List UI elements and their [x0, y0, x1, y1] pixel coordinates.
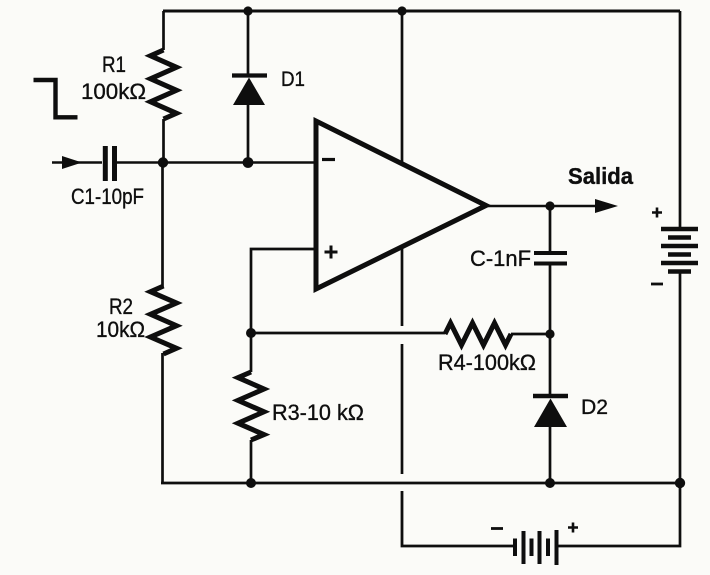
node output junction: [545, 201, 554, 210]
capacitor C plates: [534, 253, 567, 264]
battery B2 (bottom): [515, 530, 557, 565]
node plus-input junction: [246, 328, 256, 338]
wire output (apex to arrow): [486, 205, 597, 208]
resistor R4: [445, 323, 550, 345]
wire bottom horizontal y=483: [161, 482, 680, 485]
node D2 bottom junction: [545, 478, 555, 488]
op-amp minus input sign: [322, 158, 335, 161]
svg-text:R3-10 kΩ: R3-10 kΩ: [272, 400, 364, 425]
wire right vertical upper (top rail to battery B1): [679, 11, 682, 229]
input pulse symbol: [34, 80, 78, 117]
svg-text:Salida: Salida: [568, 163, 633, 189]
wire mid vertical x=402 lower, corner to bottom battery wire: [402, 491, 513, 546]
svg-text:R1: R1: [102, 52, 126, 77]
node R3 bottom junction: [246, 478, 256, 488]
battery B2 minus sign: [491, 527, 503, 530]
wire left vertical lower (R2 to bottom wire): [161, 353, 164, 483]
wire output node down to capacitor C: [549, 206, 552, 253]
wire top rail: [163, 10, 680, 13]
capacitor C1 plates: [105, 146, 114, 181]
svg-text:R2: R2: [109, 294, 133, 319]
battery B1 (right): [661, 229, 698, 272]
svg-text:C-1nF: C-1nF: [470, 246, 531, 271]
svg-text:100kΩ: 100kΩ: [81, 79, 146, 104]
wire right vertical lower (battery B1 to bottom corner): [558, 272, 680, 546]
resistor R2: [151, 286, 177, 354]
wire mid vertical x=402 upper (from top rail, hidden behind op-amp): [401, 11, 404, 326]
resistor R3: [238, 333, 264, 483]
node mid vertical top junction: [397, 6, 406, 15]
wire mid vertical x=402 middle (below y=333 wire, break at crossing): [401, 344, 404, 474]
svg-text:R4-100kΩ: R4-100kΩ: [438, 350, 536, 375]
node right bottom junction: [675, 478, 685, 488]
op-amp plus input sign: [325, 246, 338, 259]
svg-text:10kΩ: 10kΩ: [96, 317, 145, 342]
svg-text:D2: D2: [581, 396, 608, 419]
node D1 top junction: [243, 6, 252, 15]
battery B1 minus sign: [651, 283, 663, 286]
battery B1 plus sign: [652, 208, 662, 218]
output arrowhead: [595, 199, 618, 213]
node input junction: [158, 157, 168, 167]
wire plus input to node (left and down): [251, 249, 316, 333]
node R4 junction: [545, 329, 554, 338]
wire input line: [52, 161, 102, 164]
diode D2: [533, 334, 568, 483]
input arrowhead: [62, 156, 82, 169]
svg-text:D1: D1: [281, 68, 305, 91]
wire left vertical upper (input node to R2): [161, 162, 164, 287]
wire capacitor C to R4 node: [549, 263, 552, 334]
battery B2 plus sign: [568, 523, 578, 533]
diode D1: [232, 11, 267, 162]
wire mid horizontal y=333 (node to R4): [251, 332, 445, 335]
node D1 bottom junction: [243, 157, 254, 168]
resistor R1: [151, 11, 177, 162]
svg-text:C1-10pF: C1-10pF: [71, 184, 144, 209]
op-amp U1: [316, 121, 486, 289]
wire C1 to op-amp minus input: [117, 161, 316, 164]
